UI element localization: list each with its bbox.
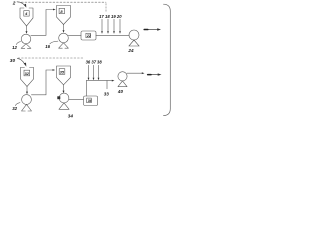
svg-text:36: 36: [88, 99, 92, 103]
svg-text:8: 8: [60, 9, 63, 14]
svg-text:40: 40: [117, 89, 124, 94]
wire pump 40 outlet: [127, 72, 142, 74]
svg-text:32: 32: [25, 72, 30, 76]
wire main pipe top row: [96, 34, 129, 36]
svg-text:34: 34: [68, 113, 74, 118]
wire feed arrow into hopper 4: [17, 2, 25, 5]
wire dashed line top row: [18, 1, 106, 3]
svg-text:19: 19: [111, 14, 116, 19]
wire hopper 8 discharge: [63, 25, 65, 31]
wire output arrow top row: [144, 29, 158, 31]
pump 33a ref label: [15, 103, 20, 106]
hopper 8: [57, 6, 71, 25]
wire pump 34 to mixer 36: [69, 98, 84, 100]
pump 40 base: [118, 81, 127, 87]
pump 16 ref label: [50, 41, 58, 44]
wire hopper 32 discharge: [26, 87, 28, 92]
svg-text:20: 20: [116, 14, 122, 19]
bracket right: [164, 4, 171, 115]
svg-text:32: 32: [12, 106, 17, 111]
svg-text:35: 35: [60, 70, 65, 74]
svg-text:24: 24: [127, 48, 134, 53]
mixer 36: [84, 96, 98, 106]
wire feed arrow into hopper 32: [17, 59, 24, 64]
hopper 35: [57, 66, 71, 85]
wire riser from mixer 36: [85, 81, 87, 96]
pump 33a base: [22, 104, 32, 111]
wire additive line 36: [88, 65, 90, 78]
wire pump 33a to hopper 35: [31, 70, 52, 95]
wire hopper 4 discharge: [26, 26, 28, 31]
svg-text:38: 38: [97, 60, 102, 65]
hopper 32 label box: [24, 70, 30, 76]
mixer 22: [81, 31, 96, 40]
svg-text:2: 2: [12, 0, 16, 6]
hopper 4 label box: [24, 11, 29, 16]
pump 34 ref blob: [57, 96, 60, 99]
pump 24: [129, 30, 139, 40]
svg-text:36: 36: [86, 60, 91, 65]
svg-text:18: 18: [105, 14, 110, 19]
hopper 4: [20, 8, 33, 26]
pump 12: [21, 34, 31, 44]
wire pump 16 to mixer 22: [68, 34, 81, 36]
svg-text:17: 17: [99, 14, 104, 19]
node 33 leader: [106, 81, 108, 89]
pump 33a: [22, 95, 32, 105]
pump 34: [59, 93, 69, 103]
pump 40: [118, 72, 127, 81]
pump 16 base: [59, 43, 69, 48]
wire additive line 17: [101, 19, 103, 31]
svg-text:12: 12: [12, 45, 17, 50]
pump 12 ref label: [16, 42, 20, 45]
pump 16: [59, 33, 69, 43]
svg-text:22: 22: [86, 34, 91, 38]
svg-text:4: 4: [24, 11, 28, 16]
wire additive line 19: [113, 19, 115, 31]
wire output arrow bottom row: [148, 74, 159, 76]
wire additive line 18: [107, 19, 109, 31]
hopper 8 label box: [59, 8, 64, 13]
wire manifold bottom row: [86, 80, 112, 82]
wire dashed line bottom row: [18, 57, 84, 59]
wire additive line 37: [93, 65, 95, 78]
wire additive line 20: [119, 19, 121, 31]
wire pump 12 to hopper 8: [31, 10, 53, 36]
wire hopper 35 discharge: [63, 85, 65, 91]
pump 12 base: [21, 44, 31, 49]
pump 34 base: [59, 103, 69, 109]
wire additive line 38: [98, 65, 100, 78]
svg-text:33: 33: [104, 91, 110, 96]
svg-text:37: 37: [91, 60, 96, 65]
hopper 32: [20, 68, 33, 87]
svg-text:16: 16: [45, 44, 50, 49]
svg-text:30: 30: [10, 58, 16, 64]
hopper 35 label box: [59, 69, 65, 75]
pump 24 base: [129, 40, 139, 46]
